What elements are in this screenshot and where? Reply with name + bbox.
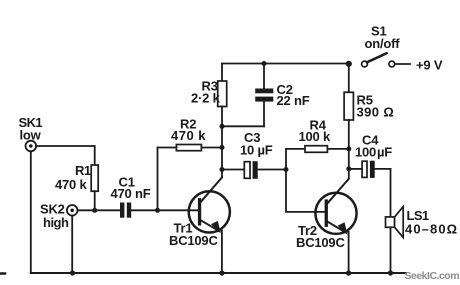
capacitor C3 [222,161,286,179]
svg-text:40–80Ω: 40–80Ω [405,222,458,237]
svg-text:10 µF: 10 µF [240,143,273,158]
wire Tr1 emitter down [221,231,223,274]
node R2 right junction [220,145,225,150]
wire bottom rail [31,272,406,274]
svg-text:100 k: 100 k [299,129,332,144]
svg-text:on/off: on/off [365,36,401,51]
node R2/C1 junction [155,208,160,213]
wire SK2 to C1 [78,209,121,211]
resistor R2 [158,145,223,151]
node LS1 ground junction [388,270,393,275]
wire top rail [222,63,349,65]
resistor R4 [286,146,349,170]
node top-rail C2 junction [262,61,267,66]
svg-text:2·2 k: 2·2 k [191,91,221,106]
wire SK2 sleeve down [71,216,73,273]
wire C4 to LS1 [390,169,392,217]
wire Tr2 emitter down [348,232,350,273]
wire C2 bottom link [222,125,264,127]
node C4/Tr2-collector junction [346,166,351,171]
wire C3 junction down to Tr2 base [286,170,325,212]
resistor R3 [218,64,227,107]
node Tr1 emitter ground junction [219,270,224,275]
svg-text:100 µF: 100 µF [355,145,392,160]
connector SK1 [26,141,37,152]
wire R2 left drop to C1 row [157,148,159,211]
wire from S1 to +9V [395,63,410,65]
node Tr2 emitter ground junction [346,270,351,275]
scan edge artifact [0,272,5,275]
wire SK1 to R1 [36,146,95,165]
svg-text:+9 V: +9 V [416,58,443,73]
svg-text:22 nF: 22 nF [277,93,310,108]
wire C1 to Tr1 base [131,209,198,211]
svg-text:R1: R1 [75,163,91,178]
wire R3 bottom to Tr1 collector column [221,107,223,178]
node SK2 ground junction [70,270,75,275]
switch S1 [362,53,395,67]
svg-text:SeekIC.com: SeekIC.com [405,270,460,282]
svg-text:470 k: 470 k [171,128,206,143]
svg-text:390 Ω: 390 Ω [357,105,395,120]
resistor R5 [344,64,353,149]
wire SK1 sleeve down [30,151,32,273]
svg-text:BC109C: BC109C [169,233,218,248]
node R1 bottom junction [92,208,97,213]
svg-text:470 nF: 470 nF [111,186,151,201]
connector SK2 [67,205,78,216]
svg-text:high: high [43,215,69,230]
svg-text:BC109C: BC109C [296,235,345,250]
capacitor C4 [349,161,391,178]
svg-text:470 k: 470 k [55,177,88,192]
capacitor C1 [120,203,131,218]
wire R4/R5 junction down to C4 junction [348,149,350,178]
node R3/C2 junction [220,124,225,129]
node C3/R4/Tr2-base junction [284,167,289,172]
transistor Tr2 [315,179,356,235]
node C3 left junction [220,167,225,172]
svg-text:low: low [20,128,42,143]
node R4/R5 junction [346,146,351,151]
loudspeaker LS1 [386,207,404,273]
resistor R1 [91,165,98,210]
transistor Tr1 [189,178,230,234]
node top-rail R5/S1 junction [346,61,352,67]
capacitor C2 [255,64,273,127]
